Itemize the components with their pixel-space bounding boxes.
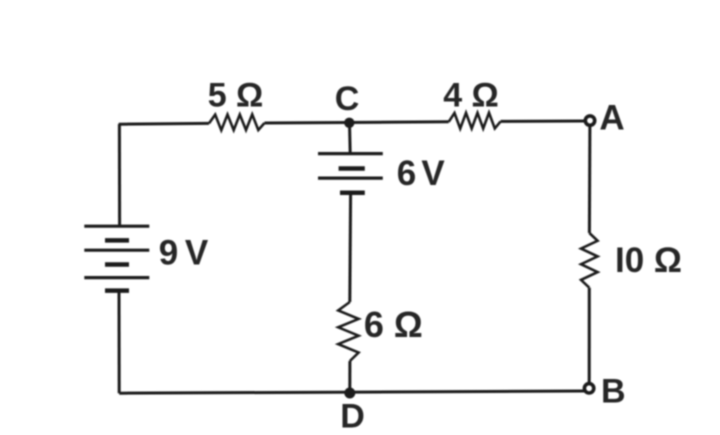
- svg-text:9: 9: [159, 233, 178, 272]
- svg-text:4 Ω: 4 Ω: [443, 76, 499, 114]
- svg-text:V: V: [421, 154, 445, 193]
- svg-text:I0 Ω: I0 Ω: [615, 241, 682, 280]
- svg-text:B: B: [601, 373, 626, 411]
- svg-text:A: A: [599, 99, 624, 138]
- svg-text:D: D: [340, 398, 365, 435]
- svg-text:6 Ω: 6 Ω: [364, 304, 423, 345]
- svg-text:6: 6: [397, 154, 416, 193]
- svg-text:C: C: [335, 80, 360, 118]
- svg-text:V: V: [185, 233, 209, 272]
- svg-text:5 Ω: 5 Ω: [208, 76, 264, 114]
